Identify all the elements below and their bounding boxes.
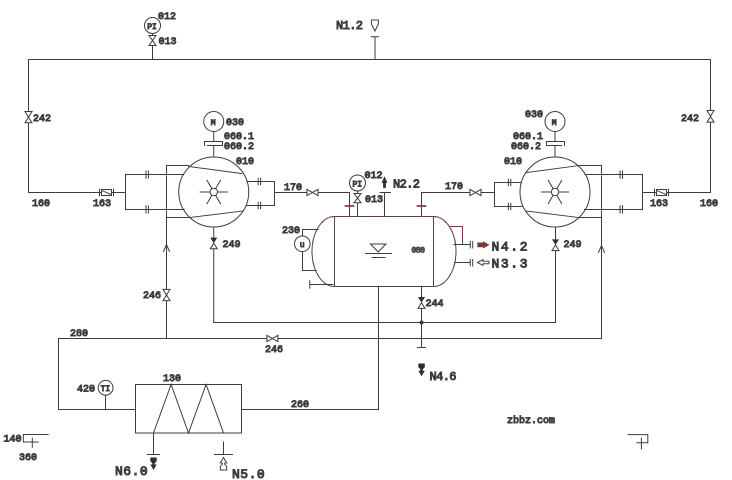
pump P-left suction chamber [126, 171, 185, 213]
svg-text:280: 280 [70, 329, 88, 340]
wire: 280 drop to cooler [59, 339, 136, 410]
svg-text:PI: PI [353, 181, 363, 190]
svg-text:PI: PI [147, 23, 157, 32]
utility point bottom right [628, 435, 648, 449]
pump P-right bottom chord [526, 211, 579, 218]
vessel level mark [366, 244, 392, 258]
wire: main vacuum header [29, 59, 711, 61]
watermark [507, 415, 555, 427]
wire: vessel bottom to cooler line 260 [378, 287, 380, 410]
svg-text:249: 249 [564, 240, 582, 251]
instrument TI 420 [77, 380, 113, 409]
pump P-left discharge chamber [247, 178, 275, 208]
svg-text:N4.6: N4.6 [430, 370, 457, 384]
svg-text:N3.3: N3.3 [492, 257, 530, 272]
pump P-left bottom chord [190, 211, 243, 218]
svg-text:TI: TI [101, 385, 111, 394]
valve 170 right [470, 189, 481, 195]
wire: right header drop [710, 60, 712, 193]
pump P-left recirculation bracket [164, 166, 191, 290]
pump P-left impeller [200, 180, 227, 203]
flange tick right nozzle [418, 205, 426, 207]
vessel 080 shell [312, 217, 456, 287]
wire: cooler outlet line 260 [242, 400, 379, 411]
flange tick left nozzle [346, 205, 354, 207]
valve 013 vessel [354, 191, 383, 217]
svg-text:230: 230 [282, 226, 300, 237]
pump P-left top chord [189, 167, 242, 174]
wire: drain header [214, 322, 556, 324]
wire: right suction pipe 160 [643, 193, 719, 211]
pump P-right discharge chamber [495, 179, 523, 209]
coupling 060 left [205, 132, 255, 158]
valve 013 top [149, 34, 177, 60]
motor 030 left [204, 112, 244, 132]
valve 242 left [25, 112, 51, 126]
svg-text:010: 010 [236, 157, 254, 168]
svg-text:080: 080 [412, 247, 426, 256]
node N6.0 connector [115, 433, 160, 479]
svg-text:163: 163 [650, 199, 668, 210]
vessel drain stub capped [310, 281, 333, 289]
svg-text:170: 170 [445, 182, 463, 193]
svg-text:012: 012 [365, 171, 383, 182]
wire: discharge line 170 right [445, 182, 495, 193]
svg-text:013: 013 [365, 195, 383, 206]
valve 249 left [210, 238, 240, 323]
svg-text:012: 012 [158, 12, 176, 23]
node N2.2 connector [380, 176, 420, 216]
svg-text:246: 246 [143, 291, 161, 302]
svg-text:060.2: 060.2 [224, 142, 254, 153]
svg-text:N2.2: N2.2 [393, 178, 420, 192]
wire: pump left drain [213, 227, 215, 238]
svg-text:010: 010 [504, 157, 522, 168]
junction node [420, 321, 424, 325]
valve 244 [418, 297, 444, 348]
svg-text:M: M [552, 119, 557, 128]
svg-text:160: 160 [700, 199, 718, 210]
svg-text:360: 360 [19, 453, 37, 464]
wire: level gauge taps [303, 230, 319, 271]
svg-text:420: 420 [77, 385, 95, 396]
wire: pump right drain [555, 227, 557, 239]
pump P-right casing 010 [504, 157, 590, 227]
wire: discharge line 170 left [275, 183, 307, 194]
wire: vessel drain to 244 [421, 287, 423, 298]
svg-text:249: 249 [223, 240, 241, 251]
valve 246 vertical left [143, 289, 170, 338]
wire: 170 to vessel nozzle [318, 193, 350, 217]
svg-text:N5.0: N5.0 [232, 467, 265, 480]
utility point 140/360 [4, 435, 49, 465]
node N3.3 connector [455, 257, 530, 272]
svg-text:242: 242 [681, 114, 699, 125]
node N5.0 connector [215, 442, 266, 480]
svg-text:N6.0: N6.0 [115, 464, 148, 479]
wire: left suction pipe 160 [29, 193, 126, 211]
instrument U 230 level gauge [282, 226, 310, 252]
pump P-right impeller [542, 180, 569, 203]
pump P-right suction chamber [585, 171, 643, 213]
motor 030 right [525, 110, 565, 132]
svg-text:242: 242 [33, 114, 51, 125]
svg-text:140: 140 [4, 435, 22, 446]
svg-text:M: M [211, 119, 216, 128]
svg-text:246: 246 [265, 345, 283, 356]
svg-text:013: 013 [159, 37, 177, 48]
valve 246 horizontal [265, 335, 283, 356]
wire: 170 to vessel nozzle right [422, 193, 470, 217]
svg-text:130: 130 [163, 374, 181, 385]
pump P-left casing 010 [179, 157, 254, 227]
inline joint 163 left [93, 189, 114, 210]
svg-text:zbbz.com: zbbz.com [507, 415, 555, 427]
heat exchanger 130 [136, 374, 242, 433]
svg-text:244: 244 [426, 299, 444, 310]
pump P-right top chord [526, 166, 579, 173]
valve 249 right [552, 239, 582, 322]
svg-text:030: 030 [226, 118, 244, 129]
wire: seal water line 280 [59, 329, 602, 340]
svg-text:N4.2: N4.2 [492, 240, 530, 255]
svg-text:160: 160 [32, 199, 50, 210]
node N4.2 connector [450, 227, 463, 245]
node N1.2 inlet connector [336, 19, 379, 60]
node N4.6 connector [418, 348, 457, 385]
svg-text:163: 163 [93, 199, 111, 210]
pump P-right recirculation bracket [578, 166, 604, 339]
svg-text:u: u [300, 241, 305, 250]
valve 170 left [307, 189, 318, 195]
svg-text:030: 030 [525, 110, 543, 121]
wire: left header drop to suction [28, 60, 30, 193]
svg-text:N1.2: N1.2 [336, 19, 363, 33]
inline joint 163 right [650, 189, 669, 210]
coupling 060 right [511, 132, 565, 158]
valve 242 right [681, 111, 714, 126]
svg-text:260: 260 [291, 400, 309, 411]
svg-text:060.2: 060.2 [511, 142, 541, 153]
instrument PI 012 top [145, 12, 177, 34]
instrument PI 012 vessel [350, 171, 383, 191]
svg-text:170: 170 [284, 183, 302, 194]
